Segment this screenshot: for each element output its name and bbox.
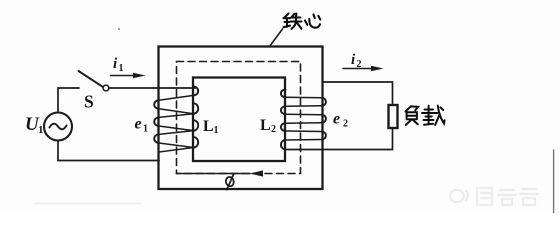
window arc 1 [281, 90, 286, 98]
label fu-zai (load) [406, 106, 445, 125]
svg-text:L: L [260, 117, 271, 134]
right arc 2 [194, 103, 199, 113]
svg-text:1: 1 [119, 63, 124, 74]
crossing wire [286, 139, 322, 142]
window arc 2 [281, 106, 286, 114]
right arc 3 [194, 120, 199, 130]
wire U1 top to switch [58, 88, 79, 113]
label L2 [260, 117, 276, 135]
arrow i2 [343, 68, 372, 70]
svg-text:e: e [333, 111, 340, 128]
core window rectangle [193, 78, 285, 162]
crossing wire [286, 113, 322, 116]
label i1 [113, 56, 124, 74]
flux path dashed rectangle [177, 62, 301, 174]
flux line solid segment [177, 173, 251, 175]
crossing wire [159, 109, 194, 114]
core label pointer line [270, 29, 283, 47]
wire switch to primary winding [109, 87, 196, 89]
svg-text:e: e [135, 116, 142, 133]
svg-text:2: 2 [271, 124, 276, 135]
svg-text:L: L [203, 118, 214, 135]
secondary winding L2 [281, 90, 326, 150]
crossing wire [159, 131, 194, 135]
outer arc 1 [322, 98, 326, 106]
crossing wire [286, 130, 322, 133]
svg-text:2: 2 [343, 119, 348, 130]
right arc 4 [194, 137, 199, 147]
crossing wire [286, 105, 322, 108]
scan speck top [118, 28, 120, 30]
label L1 [203, 118, 219, 136]
svg-text:1: 1 [38, 124, 44, 136]
scan streak bottom left [35, 203, 140, 205]
switch S blade [79, 71, 104, 87]
label e2 [333, 111, 348, 130]
left arc 1 [154, 100, 159, 109]
exit wire [159, 148, 194, 161]
outer arc 3 [322, 132, 326, 140]
window arc 4 [281, 140, 286, 149]
switch S contact circle [103, 85, 109, 91]
watermark [450, 188, 538, 205]
crossing wire [159, 143, 194, 148]
window arc 3 [281, 123, 286, 131]
left arc 2 [154, 117, 159, 126]
label phi [225, 176, 235, 187]
load resistor [389, 105, 398, 128]
flux arrow [250, 170, 264, 176]
svg-text:1: 1 [143, 124, 148, 135]
svg-text:1: 1 [214, 125, 219, 136]
source U1 [44, 113, 72, 141]
label S [84, 92, 94, 112]
scan artifact right edge [553, 150, 555, 213]
svg-text:S: S [84, 92, 94, 112]
label e1 [135, 116, 149, 135]
wire load bottom [286, 128, 393, 150]
crossing wire [286, 96, 322, 99]
label i2 [351, 52, 362, 70]
crossing wire [159, 114, 194, 118]
primary winding L1 [154, 87, 198, 161]
turn entry arc [194, 87, 199, 96]
crossing wire [159, 95, 194, 100]
arrow i1 [111, 75, 135, 77]
crossing wire [286, 122, 322, 125]
label U1 [25, 114, 44, 136]
crossing wire [159, 126, 194, 131]
core outer rectangle [159, 47, 323, 190]
left arc 3 [154, 134, 159, 143]
wire secondary top to load [323, 82, 393, 105]
outer arc 2 [322, 115, 326, 123]
wire U1 bottom to core left [58, 141, 159, 161]
label tie-xin (iron core) [284, 14, 321, 29]
